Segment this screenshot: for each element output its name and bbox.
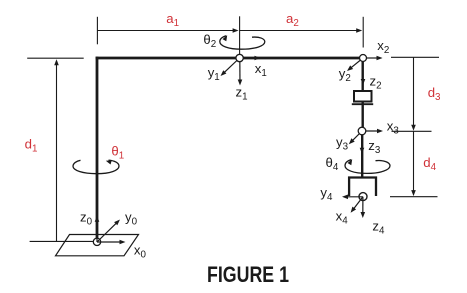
svg-text:θ2: θ2 (203, 32, 216, 50)
dimension a1/a2 extension tick left (96, 17, 98, 45)
label y3 (336, 135, 349, 153)
svg-text:y0: y0 (125, 210, 138, 228)
link 1 (vertical base link) (96, 57, 99, 239)
svg-text:d1: d1 (25, 136, 38, 154)
svg-text:z1: z1 (236, 84, 248, 102)
frame 1 x1 axis arrow (240, 56, 261, 61)
svg-text:z4: z4 (372, 219, 385, 237)
frame 1 y1 axis arrow (221, 58, 240, 76)
frame 4 y4 axis arrow (342, 195, 363, 200)
label theta4 (326, 155, 339, 173)
dimension d1 arrow line (54, 59, 59, 241)
label z4 (372, 219, 385, 237)
label d4 (423, 155, 436, 173)
frame 2 y2 axis arrow (347, 58, 363, 71)
caption FIGURE 1 (207, 262, 289, 287)
svg-text:y1: y1 (208, 65, 220, 83)
label theta1 (111, 143, 124, 161)
label z3 (368, 138, 381, 156)
frame 3 x3 axis arrow (362, 129, 383, 134)
svg-text:y3: y3 (336, 135, 349, 153)
label theta2 (203, 32, 216, 50)
frame 0 x0 axis arrow (97, 240, 126, 245)
svg-text:a2: a2 (286, 11, 299, 29)
svg-text:z0: z0 (80, 209, 93, 227)
frame 2 z2 axis arrow (361, 58, 366, 85)
link 2 (horizontal arm link) (96, 57, 363, 60)
frame 2 x2 axis arrow (363, 56, 383, 61)
rotation arrow theta1 (about z0) (73, 160, 119, 174)
label y1 (208, 65, 220, 83)
label d3 (428, 85, 441, 103)
svg-text:x4: x4 (336, 208, 349, 226)
joint 2 circle (revolute) (360, 55, 367, 62)
label x3 (387, 119, 400, 137)
frame 0 z0 axis arrow (95, 216, 100, 242)
joint 4 circle (end effector) (359, 193, 367, 201)
frame 3 y3 axis arrow (349, 131, 362, 144)
label x4 (336, 208, 349, 226)
prismatic joint box (354, 91, 372, 102)
base origin circle (93, 238, 100, 245)
svg-text:FIGURE 1: FIGURE 1 (207, 262, 289, 287)
svg-text:z2: z2 (370, 74, 382, 92)
label y0 (125, 210, 138, 228)
svg-text:x1: x1 (255, 61, 267, 79)
svg-text:d3: d3 (428, 85, 441, 103)
rotation arrow theta4 (about z3) (345, 159, 390, 173)
dimension a1/a2 extension tick right (362, 17, 364, 48)
label x2 (377, 38, 389, 56)
svg-text:θ1: θ1 (111, 143, 124, 161)
frame 0 y0 axis arrow (97, 220, 120, 243)
dimension d4 arrow line (411, 131, 416, 196)
joint 3 circle (358, 127, 366, 135)
end effector bracket (349, 178, 376, 197)
dimension a2 arrow line (240, 28, 363, 33)
svg-text:x3: x3 (387, 119, 400, 137)
base plate (56, 235, 139, 256)
dimension d1 extension ticks (27, 58, 93, 241)
svg-text:x0: x0 (134, 242, 147, 260)
label z2 (370, 74, 382, 92)
link 3 (vertical link joint2 to joint3) (362, 58, 364, 131)
label y2 (339, 66, 351, 84)
joint 1 circle (revolute theta2) (236, 54, 243, 61)
svg-text:z3: z3 (368, 138, 381, 156)
prismatic joint lower plate line (352, 103, 373, 105)
label z1 (236, 84, 248, 102)
svg-text:x2: x2 (377, 38, 389, 56)
frame 4 x4 axis arrow (351, 197, 363, 213)
label a1 (166, 11, 179, 29)
label y4 (320, 185, 333, 203)
label a2 (286, 11, 299, 29)
label d1 (25, 136, 38, 154)
frame 3 z3 axis arrow (360, 131, 365, 154)
dimension d3 arrow line (411, 57, 416, 130)
frame 4 z4 axis arrow (361, 197, 366, 218)
link 4 (vertical link joint3 to end effector) (361, 131, 363, 177)
label x1 (255, 61, 267, 79)
svg-text:d4: d4 (423, 155, 436, 173)
svg-text:a1: a1 (166, 11, 179, 29)
label z0 (80, 209, 93, 227)
dimension a1 arrow line (97, 28, 238, 33)
svg-text:y4: y4 (320, 185, 333, 203)
svg-text:θ4: θ4 (326, 155, 339, 173)
label x0 (134, 242, 147, 260)
dimension d3/d4 extension tick middle (392, 130, 432, 132)
rotation arrow theta2 (about z1) (220, 35, 265, 49)
dimension d3/d4 extension tick bottom (390, 196, 438, 198)
dimension a1/a2 extension tick middle (239, 16, 241, 54)
frame 1 z1 axis arrow (238, 58, 243, 86)
dimension d3/d4 extension tick top (391, 56, 439, 58)
